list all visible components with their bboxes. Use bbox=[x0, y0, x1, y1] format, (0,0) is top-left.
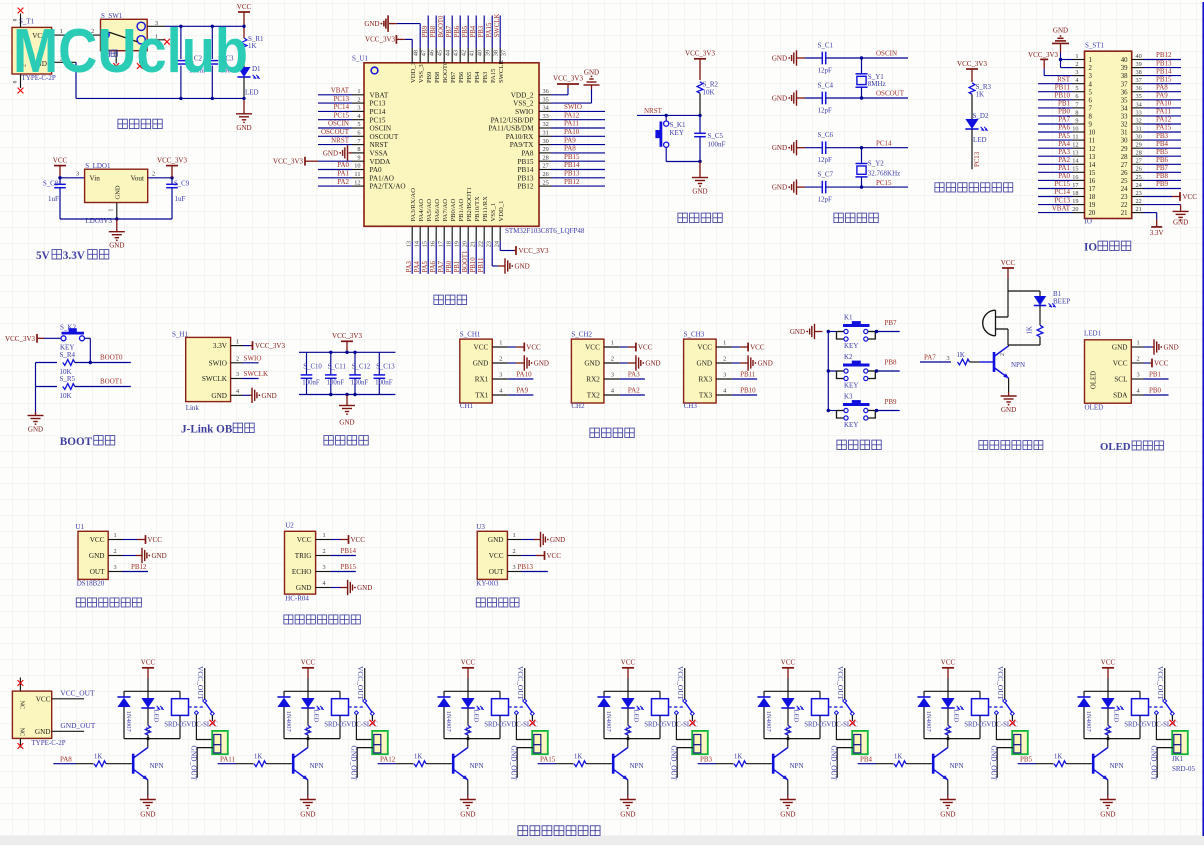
svg-text:PA8: PA8 bbox=[564, 145, 576, 153]
svg-text:PA0: PA0 bbox=[1058, 172, 1070, 180]
svg-text:PA3: PA3 bbox=[1058, 148, 1070, 156]
svg-text:100nF: 100nF bbox=[327, 379, 345, 386]
relay unit 7 bottom rail bbox=[1084, 737, 1140, 740]
power flag VCC for LDO input bbox=[53, 156, 68, 177]
module U2 HC-R04 body bbox=[285, 522, 316, 603]
svg-text:SWIO: SWIO bbox=[244, 354, 262, 362]
svg-text:SWCLK: SWCLK bbox=[202, 375, 228, 383]
transistor NPN of relay unit 4 bbox=[613, 739, 643, 780]
svg-text:PB15: PB15 bbox=[518, 158, 534, 166]
transistor NPN of relay unit 2 bbox=[293, 739, 323, 780]
svg-text:12: 12 bbox=[354, 179, 360, 186]
svg-text:VCC_3V3: VCC_3V3 bbox=[365, 35, 395, 43]
svg-text:GND: GND bbox=[1053, 26, 1068, 34]
U1 pin 10 (PA0) bbox=[318, 161, 364, 170]
svg-text:GND_OUT: GND_OUT bbox=[350, 746, 359, 781]
svg-text:1: 1 bbox=[1089, 57, 1092, 64]
ground symbol at U1 VSS_1 pin 23 bbox=[492, 241, 529, 273]
U1 pin 45 (PB8) top stub bbox=[430, 16, 444, 63]
svg-text:29: 29 bbox=[1136, 142, 1142, 149]
screw terminal of relay unit 4 bbox=[692, 731, 708, 754]
svg-text:2: 2 bbox=[357, 96, 360, 103]
svg-text:1K: 1K bbox=[624, 726, 631, 734]
U1 pin 11 (PA1/AO) bbox=[318, 170, 364, 179]
H1 pin 4 to GND bbox=[231, 388, 277, 403]
svg-text:34: 34 bbox=[543, 105, 550, 112]
svg-text:PB14: PB14 bbox=[341, 547, 357, 555]
svg-text:TX2: TX2 bbox=[587, 392, 601, 400]
filter bottom rail bbox=[299, 393, 395, 396]
svg-text:PA2: PA2 bbox=[628, 386, 640, 394]
svg-text:PB9: PB9 bbox=[422, 25, 429, 37]
svg-text:PA8: PA8 bbox=[1156, 83, 1168, 91]
capacitor C12 100nF bbox=[349, 352, 371, 394]
ground symbol at ST1 pin 22 bbox=[1144, 205, 1189, 227]
svg-text:GND: GND bbox=[772, 55, 787, 63]
svg-text:TX3: TX3 bbox=[699, 392, 713, 400]
net VCC_OUT wire from TYPE-C-2P bbox=[52, 688, 95, 698]
svg-text:GND_OUT: GND_OUT bbox=[990, 746, 999, 781]
svg-text:PA12: PA12 bbox=[1156, 116, 1172, 124]
svg-text:GND: GND bbox=[152, 552, 167, 560]
LED of relay unit 1 bbox=[141, 691, 163, 722]
svg-text:1: 1 bbox=[357, 88, 360, 95]
svg-text:NPN: NPN bbox=[310, 762, 324, 770]
svg-text:1: 1 bbox=[236, 338, 239, 345]
svg-text:2: 2 bbox=[1089, 65, 1093, 72]
svg-text:PB14: PB14 bbox=[1156, 67, 1172, 75]
ST1 pin 35 bbox=[1132, 92, 1181, 101]
svg-text:IO: IO bbox=[1084, 242, 1097, 254]
CH1 pin 1 to VCC bbox=[492, 340, 541, 352]
power flag VCC_3V3 of reset circuit bbox=[685, 50, 715, 80]
svg-text:Vin: Vin bbox=[90, 175, 101, 183]
crystal Y2 32.768KHz bbox=[856, 146, 901, 189]
svg-text:OSCOUT: OSCOUT bbox=[321, 128, 350, 136]
ST1 pin 40 bbox=[1132, 51, 1181, 60]
resistor 1K base of relay unit 4 bbox=[574, 753, 612, 766]
ST1 pin 6 bbox=[1038, 92, 1085, 101]
connector T1 TYPE-C-2P bbox=[12, 18, 56, 83]
U3 pin 3 net PB13 bbox=[507, 563, 547, 572]
U1 pin 37 (SWCLK) top stub bbox=[494, 14, 508, 63]
svg-text:3.3V: 3.3V bbox=[213, 342, 228, 350]
svg-text:VCC: VCC bbox=[621, 659, 636, 667]
svg-text:PB11/RX: PB11/RX bbox=[482, 196, 489, 222]
svg-text:Vout: Vout bbox=[131, 175, 144, 183]
connector CH1 body bbox=[460, 330, 493, 410]
svg-text:2: 2 bbox=[114, 548, 117, 555]
ST1 pin 25 bbox=[1132, 172, 1181, 181]
ST1 pin 34 bbox=[1132, 100, 1181, 109]
svg-text:PB8: PB8 bbox=[430, 25, 437, 37]
relay unit 5 bottom rail bbox=[764, 737, 820, 740]
ST1 pin 29 bbox=[1132, 140, 1181, 149]
svg-text:27: 27 bbox=[1136, 158, 1142, 165]
screw terminal of relay unit 3 bbox=[532, 731, 548, 754]
U1 pin 47 (VSS_3) top stub bbox=[420, 48, 427, 63]
ground symbol of reset circuit bbox=[692, 162, 708, 196]
svg-text:1: 1 bbox=[513, 532, 516, 539]
svg-text:GND: GND bbox=[109, 242, 124, 250]
svg-text:VCC_3V3: VCC_3V3 bbox=[685, 50, 715, 58]
ground symbol for C4 bbox=[772, 90, 805, 105]
svg-text:LED: LED bbox=[973, 136, 987, 144]
svg-text:40: 40 bbox=[477, 50, 484, 56]
svg-text:PA4: PA4 bbox=[1058, 140, 1070, 148]
svg-text:S_R5: S_R5 bbox=[60, 375, 76, 383]
LED of relay unit 3 bbox=[461, 691, 483, 722]
svg-text:22: 22 bbox=[1121, 202, 1128, 209]
svg-text:GND_OUT: GND_OUT bbox=[1150, 746, 1159, 781]
svg-text:OUT: OUT bbox=[90, 568, 105, 576]
svg-text:26: 26 bbox=[543, 171, 549, 178]
svg-text:GND: GND bbox=[89, 552, 105, 560]
svg-text:23: 23 bbox=[486, 241, 493, 247]
relay switch of unit 2 bbox=[349, 666, 376, 726]
svg-text:OSCOUT: OSCOUT bbox=[370, 133, 399, 141]
svg-text:LDO3V3: LDO3V3 bbox=[86, 217, 113, 225]
net label PA7 input wire bbox=[920, 354, 951, 363]
svg-text:GND: GND bbox=[1001, 406, 1016, 414]
svg-text:PC15: PC15 bbox=[876, 179, 892, 187]
svg-text:1N4007: 1N4007 bbox=[1085, 711, 1092, 733]
ST1 pin 38 bbox=[1132, 67, 1181, 76]
label 晶振电路 crystal circuit bbox=[834, 213, 878, 222]
power flag VCC_3V3 of BOOT circuit bbox=[5, 334, 44, 343]
svg-text:VCC: VCC bbox=[781, 659, 796, 667]
svg-text:48: 48 bbox=[413, 50, 420, 56]
ST1 pin 37 bbox=[1132, 75, 1181, 84]
svg-text:39: 39 bbox=[485, 50, 492, 56]
svg-text:38: 38 bbox=[1121, 73, 1128, 80]
svg-text:PB7: PB7 bbox=[1156, 164, 1169, 172]
svg-text:23: 23 bbox=[1121, 194, 1128, 201]
ground symbol of filter circuit bbox=[339, 395, 355, 427]
net GND_OUT wire of relay unit 6 bbox=[990, 746, 1013, 781]
ST1 pin 14 bbox=[1038, 156, 1085, 165]
resistor 1K under LED of relay unit 6 bbox=[944, 708, 951, 739]
resistor 1K of alarm LED branch bbox=[1008, 306, 1043, 346]
svg-text:VCC: VCC bbox=[53, 156, 68, 164]
LED B1 BEEP bbox=[1034, 290, 1070, 307]
svg-text:PC13: PC13 bbox=[974, 151, 981, 167]
net GND_OUT wire of relay unit 4 bbox=[670, 746, 693, 781]
wire LDO bottom rail bbox=[60, 217, 172, 220]
svg-text:VDDA: VDDA bbox=[370, 158, 392, 166]
svg-text:PB13: PB13 bbox=[518, 563, 534, 571]
svg-text:32.768KHz: 32.768KHz bbox=[868, 170, 900, 178]
svg-text:3.3V: 3.3V bbox=[1150, 229, 1164, 237]
svg-text:NC: NC bbox=[19, 701, 26, 710]
svg-text:PA15: PA15 bbox=[1156, 124, 1172, 132]
svg-text:1K: 1K bbox=[94, 753, 102, 760]
svg-text:GND_OUT: GND_OUT bbox=[60, 721, 95, 730]
svg-text:1K: 1K bbox=[248, 42, 257, 50]
svg-text:GND_OUT: GND_OUT bbox=[190, 746, 199, 781]
LED D1 bbox=[237, 65, 261, 97]
svg-text:KY-003: KY-003 bbox=[476, 579, 499, 587]
svg-text:DS18B20: DS18B20 bbox=[77, 579, 105, 587]
ground symbol of relay unit 6 bbox=[940, 780, 956, 819]
svg-text:25: 25 bbox=[1121, 178, 1128, 185]
LED of relay unit 2 bbox=[301, 691, 323, 722]
capacitor C2 100nF bbox=[175, 25, 207, 101]
svg-text:PC13: PC13 bbox=[333, 95, 349, 103]
T1 bottom NC pin with no-connect X bbox=[13, 74, 24, 93]
svg-text:8MHz: 8MHz bbox=[868, 80, 886, 88]
diode 1N4007 of relay unit 2 bbox=[277, 691, 291, 738]
svg-text:OUT: OUT bbox=[489, 568, 504, 576]
svg-text:S_C6: S_C6 bbox=[818, 131, 834, 139]
H1 pin 3 net SWCLK bbox=[231, 370, 268, 379]
svg-text:PC13: PC13 bbox=[370, 100, 386, 108]
ST1 pin 27 bbox=[1132, 156, 1181, 165]
relay unit 3 bottom rail bbox=[444, 737, 500, 740]
svg-text:GND: GND bbox=[28, 426, 43, 434]
svg-text:PB11: PB11 bbox=[478, 258, 485, 273]
svg-text:1: 1 bbox=[499, 340, 502, 347]
input net PA15 wire of relay unit 4 bbox=[538, 756, 574, 764]
U1 pin 20 (PB2/BOOT1) bottom stub bbox=[462, 226, 469, 273]
svg-text:3: 3 bbox=[323, 564, 326, 571]
connector H1 J-Link OB body bbox=[172, 330, 231, 412]
svg-text:KEY: KEY bbox=[670, 129, 684, 137]
svg-text:3: 3 bbox=[611, 372, 614, 379]
label J-Link OB接口 bbox=[181, 423, 254, 435]
wire C6 to net PC14 bbox=[826, 139, 908, 147]
svg-text:38: 38 bbox=[1136, 69, 1142, 76]
ground symbol of relay unit 7 bbox=[1100, 780, 1116, 819]
svg-text:GND: GND bbox=[323, 149, 338, 157]
H1 pin 1 to VCC_3V3 bbox=[231, 338, 286, 350]
power flag VCC above R1 bbox=[237, 3, 252, 38]
resistor 1K base of relay unit 2 bbox=[254, 753, 292, 766]
svg-text:6: 6 bbox=[1075, 93, 1078, 100]
svg-text:K1: K1 bbox=[844, 314, 853, 322]
wire C4 to net OSCOUT bbox=[826, 90, 908, 98]
relay NO contact wire of unit 4 bbox=[674, 711, 692, 740]
svg-text:TRIG: TRIG bbox=[295, 552, 312, 560]
T1 top NC pin with no-connect X bbox=[13, 8, 24, 28]
svg-text:31: 31 bbox=[543, 130, 549, 137]
svg-text:U3: U3 bbox=[476, 523, 485, 531]
svg-text:11: 11 bbox=[1089, 138, 1096, 145]
svg-text:KEY: KEY bbox=[844, 342, 858, 350]
svg-text:NPN: NPN bbox=[630, 762, 644, 770]
OLED pin 2 to VCC bbox=[1131, 356, 1168, 368]
relay coil of unit 3 bbox=[484, 691, 538, 738]
svg-text:NC: NC bbox=[19, 728, 26, 737]
svg-text:PA15: PA15 bbox=[490, 68, 497, 83]
svg-text:24: 24 bbox=[1136, 182, 1143, 189]
svg-text:PB12: PB12 bbox=[131, 563, 147, 571]
svg-text:VCC: VCC bbox=[297, 536, 312, 544]
svg-text:OSCIN: OSCIN bbox=[370, 125, 392, 133]
U1 pin 16 (PA6/AO) bottom stub bbox=[430, 226, 437, 273]
svg-text:29: 29 bbox=[543, 146, 549, 153]
CH1 pin 3 net PA10 bbox=[492, 370, 533, 379]
connector CH2 body bbox=[571, 330, 604, 410]
svg-text:VCC: VCC bbox=[1101, 659, 1116, 667]
svg-text:GND: GND bbox=[211, 392, 227, 400]
svg-text:OSCOUT: OSCOUT bbox=[876, 90, 905, 98]
svg-text:PA2: PA2 bbox=[1058, 156, 1070, 164]
U1 pin 23 (VSS_1) bottom stub bbox=[486, 226, 493, 247]
svg-text:GND: GND bbox=[772, 95, 787, 103]
svg-text:1K: 1K bbox=[734, 753, 742, 760]
CH2 pin 1 to VCC bbox=[604, 340, 653, 352]
svg-text:1N4007: 1N4007 bbox=[125, 711, 132, 733]
power flag VCC_3V3 of filter circuit bbox=[332, 332, 362, 352]
capacitor C9 1uF bbox=[166, 178, 190, 219]
svg-text:VDD_3: VDD_3 bbox=[410, 61, 417, 83]
label BOOT电路 bbox=[60, 436, 115, 448]
svg-text:PB0: PB0 bbox=[1058, 108, 1071, 116]
svg-text:VSS_3: VSS_3 bbox=[418, 64, 425, 83]
svg-text:CH2: CH2 bbox=[571, 402, 585, 410]
wire R2 to NRST node bbox=[699, 93, 701, 115]
svg-text:37: 37 bbox=[1136, 77, 1142, 84]
label 超声波测距模块 ultrasonic module bbox=[284, 615, 360, 624]
svg-text:30: 30 bbox=[1136, 134, 1142, 141]
svg-text:VCC_OUT: VCC_OUT bbox=[836, 666, 845, 701]
label 电源电路 power circuit bbox=[118, 119, 162, 128]
diode 1N4007 of relay unit 4 bbox=[597, 691, 611, 738]
transistor NPN of alarm bbox=[994, 345, 1025, 378]
ST1 pin 17 bbox=[1038, 180, 1085, 189]
svg-text:PA9: PA9 bbox=[516, 386, 528, 394]
svg-text:S_C9: S_C9 bbox=[174, 181, 190, 188]
svg-text:1N4007: 1N4007 bbox=[765, 711, 772, 733]
svg-text:J-Link OB: J-Link OB bbox=[181, 424, 233, 436]
ST1 pin 16 bbox=[1038, 172, 1085, 181]
svg-text:S_C7: S_C7 bbox=[818, 171, 834, 179]
svg-text:PB7: PB7 bbox=[885, 319, 898, 327]
svg-text:1: 1 bbox=[1075, 53, 1078, 60]
svg-text:10K: 10K bbox=[60, 392, 72, 400]
svg-text:PA12: PA12 bbox=[564, 111, 580, 119]
U1 pin 29 (PA8) bbox=[539, 145, 605, 154]
svg-text:10: 10 bbox=[1072, 125, 1078, 132]
power flag VCC at ST1 pin 23 bbox=[1144, 192, 1198, 201]
svg-text:18: 18 bbox=[1089, 194, 1096, 201]
U1 pin 14 (PA4/AO) bottom stub bbox=[414, 226, 421, 273]
svg-text:VCC: VCC bbox=[697, 344, 712, 352]
svg-text:PB3: PB3 bbox=[1156, 132, 1169, 140]
input net PB5 wire of relay unit 7 bbox=[1018, 756, 1054, 764]
svg-text:GND: GND bbox=[790, 328, 805, 336]
svg-text:VCC: VCC bbox=[638, 344, 653, 352]
svg-text:VCC_OUT: VCC_OUT bbox=[356, 666, 365, 701]
resistor R2 10K bbox=[697, 81, 718, 97]
svg-text:GND: GND bbox=[262, 392, 277, 400]
relay NO contact wire of unit 5 bbox=[834, 711, 852, 740]
svg-text:3: 3 bbox=[947, 355, 950, 362]
svg-text:40: 40 bbox=[1136, 53, 1142, 60]
U2 pin 4 to GND bbox=[316, 580, 373, 595]
svg-text:9: 9 bbox=[1075, 117, 1078, 124]
svg-text:3: 3 bbox=[76, 171, 79, 178]
capacitor C6 12pF bbox=[805, 131, 834, 164]
svg-text:PB10: PB10 bbox=[740, 386, 756, 394]
svg-text:VCC_3V3: VCC_3V3 bbox=[255, 342, 285, 350]
net GND_OUT wire of relay unit 1 bbox=[190, 746, 213, 781]
svg-text:3: 3 bbox=[723, 372, 726, 379]
ST1 pin 3 bbox=[1073, 69, 1085, 76]
CH2 pin 2 to GND bbox=[604, 355, 661, 370]
svg-text:19: 19 bbox=[1072, 198, 1078, 205]
svg-text:PA1: PA1 bbox=[337, 170, 349, 178]
ST1 pin 4 bbox=[1038, 75, 1085, 84]
svg-text:16: 16 bbox=[1072, 174, 1078, 181]
svg-text:PB11: PB11 bbox=[740, 370, 756, 378]
svg-text:PA9/TX: PA9/TX bbox=[510, 141, 535, 149]
svg-text:37: 37 bbox=[1121, 81, 1128, 88]
ST1 pin 39 bbox=[1132, 59, 1181, 68]
svg-text:HC-R04: HC-R04 bbox=[285, 595, 309, 603]
power flag VCC_3V3 at U1 VDD_1 pin 24 bbox=[500, 241, 549, 255]
svg-text:VCC_OUT: VCC_OUT bbox=[1156, 666, 1165, 701]
svg-text:S_H1: S_H1 bbox=[172, 330, 188, 338]
svg-text:3: 3 bbox=[499, 372, 502, 379]
svg-text:PB1: PB1 bbox=[1149, 370, 1162, 378]
svg-text:30: 30 bbox=[543, 138, 549, 145]
svg-text:42: 42 bbox=[461, 50, 468, 56]
svg-text:RST: RST bbox=[1057, 75, 1071, 83]
svg-text:VCC_3V3: VCC_3V3 bbox=[157, 156, 187, 164]
svg-text:K3: K3 bbox=[844, 393, 853, 401]
power flag VCC_3V3 at ST1 pin 3 bbox=[1028, 51, 1072, 76]
svg-text:VCC_OUT: VCC_OUT bbox=[516, 666, 525, 701]
svg-text:Link: Link bbox=[186, 404, 200, 412]
resistor 1K of alarm base bbox=[957, 352, 995, 365]
svg-text:JK1: JK1 bbox=[1172, 755, 1184, 763]
push button K1 KEY bbox=[827, 314, 900, 351]
label 串口电路 serial circuit bbox=[590, 428, 634, 437]
svg-text:GND: GND bbox=[550, 536, 565, 544]
relay switch of unit 1 bbox=[189, 666, 216, 726]
svg-text:13: 13 bbox=[406, 241, 413, 247]
svg-text:PA6/AO: PA6/AO bbox=[434, 199, 441, 222]
svg-text:34: 34 bbox=[1121, 106, 1128, 113]
svg-text:VCC: VCC bbox=[489, 552, 504, 560]
svg-text:SWCLK: SWCLK bbox=[244, 370, 269, 378]
ST1 pin 18 bbox=[1038, 188, 1085, 197]
svg-text:PB12: PB12 bbox=[1156, 51, 1172, 59]
ground symbol of button circuit bbox=[790, 324, 822, 339]
relay NO contact wire of unit 1 bbox=[194, 711, 212, 740]
resistor 1K under LED of relay unit 5 bbox=[784, 708, 791, 739]
transistor NPN of relay unit 5 bbox=[773, 739, 803, 780]
svg-text:VCC_3V3: VCC_3V3 bbox=[1028, 51, 1058, 59]
svg-text:NRST: NRST bbox=[331, 136, 350, 144]
svg-text:41: 41 bbox=[469, 50, 476, 56]
svg-text:PB9: PB9 bbox=[426, 71, 433, 83]
svg-text:1K: 1K bbox=[464, 726, 471, 734]
svg-text:PB5: PB5 bbox=[1020, 756, 1033, 764]
svg-text:100nF: 100nF bbox=[708, 141, 726, 149]
SW1 unused bottom pins with X marks bbox=[113, 51, 142, 69]
svg-text:PA10: PA10 bbox=[516, 370, 532, 378]
svg-text:1K: 1K bbox=[1104, 726, 1111, 734]
svg-text:VBAT: VBAT bbox=[1052, 204, 1071, 212]
svg-text:PB13: PB13 bbox=[564, 170, 580, 178]
svg-text:26: 26 bbox=[1121, 170, 1128, 177]
svg-text:35: 35 bbox=[1136, 93, 1142, 100]
svg-text:PB7: PB7 bbox=[446, 25, 453, 37]
ST1 pin 30 bbox=[1132, 132, 1181, 141]
